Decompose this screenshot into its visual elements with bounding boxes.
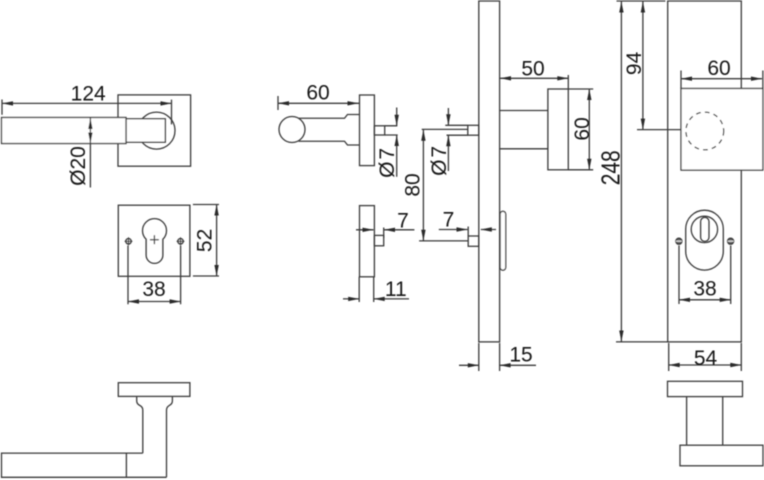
backplate side view: cylinder cover strip xyxy=(500,211,506,270)
arrow 15 left xyxy=(500,363,511,367)
svg-text:7: 7 xyxy=(397,209,409,232)
svg-text:52: 52 xyxy=(193,229,216,252)
arrow Ø7 knob down xyxy=(395,115,399,126)
dimension 124: extension lines xyxy=(2,100,172,125)
dimension Ø7 plate: extension lines xyxy=(445,125,468,135)
dimension 94: bottom extension xyxy=(637,129,681,131)
svg-text:80: 80 xyxy=(402,173,425,196)
arrow 15 right xyxy=(468,363,479,367)
arrow 60 square left xyxy=(681,77,692,81)
arrow 50 left xyxy=(500,76,511,80)
dimension 54: line xyxy=(669,364,742,366)
svg-text:Ø7: Ø7 xyxy=(428,144,451,176)
svg-text:248: 248 xyxy=(595,150,625,185)
backplate front view: square rose xyxy=(681,89,763,171)
dimension 38 right: extension lines xyxy=(679,246,731,305)
arrow 60 square right xyxy=(751,77,762,81)
dimension 124: line xyxy=(2,102,172,104)
lever elevation: rose edge xyxy=(118,383,190,397)
backplate front view: cylinder face xyxy=(691,216,717,242)
dimension Ø7 knob: arrow tails xyxy=(396,108,398,177)
dimension 11: lines xyxy=(343,298,409,300)
key rosette plan: cylinder cross xyxy=(150,235,159,244)
svg-text:38: 38 xyxy=(693,277,716,300)
arrow Ø20 down xyxy=(88,133,92,144)
arrow Ø7 knob up xyxy=(395,135,399,146)
dimension 52: extension lines xyxy=(193,205,219,277)
backplate front view: plate xyxy=(668,1,742,342)
dimension 50: extension line xyxy=(567,75,569,89)
arrow 248 down xyxy=(619,331,623,342)
dimension 7 plate: extension line xyxy=(467,227,469,237)
arrow 38L left xyxy=(128,299,139,303)
arrow 38R right xyxy=(720,298,731,302)
dimension 60 knob: extension line xyxy=(277,96,279,110)
key rosette plan: left screw xyxy=(125,237,133,245)
dimension 60 head: line xyxy=(588,89,590,170)
arrow 54 left xyxy=(669,363,680,367)
svg-text:38: 38 xyxy=(142,278,165,301)
dimension 60 square: line xyxy=(681,78,762,80)
backplate side view: hub neck xyxy=(500,111,548,149)
knob elevation: neck xyxy=(687,397,723,446)
lever handle plan view: rose circle xyxy=(138,112,175,149)
backplate side view: spindle stub xyxy=(468,125,479,135)
arrow 60 head up xyxy=(587,89,591,100)
knob side view: ball xyxy=(279,117,305,143)
backplate side view: cylinder stub xyxy=(468,236,479,246)
dimension 94: line xyxy=(642,2,644,130)
key rose side view: plate xyxy=(360,206,375,277)
backplate side view: plate xyxy=(479,1,500,342)
arrow 94 up xyxy=(641,2,645,13)
dimension 15: extension lines xyxy=(479,343,500,371)
arrow 7 rose right xyxy=(363,228,374,232)
knob elevation: rose edge xyxy=(668,381,743,396)
dimension 248: line xyxy=(620,2,622,342)
arrow 38L right xyxy=(170,299,181,303)
dimension 60 knob: line xyxy=(278,102,360,104)
svg-text:60: 60 xyxy=(707,57,730,80)
knob side view: stem and flange xyxy=(299,115,360,146)
svg-text:94: 94 xyxy=(623,51,646,75)
arrow 54 right xyxy=(730,363,741,367)
dimension 52: line xyxy=(216,205,218,277)
dimension 7 plate: lines xyxy=(439,229,496,231)
svg-text:60: 60 xyxy=(306,81,329,104)
dimension Ø20: line xyxy=(89,118,91,188)
backplate front view: right screw xyxy=(728,238,734,244)
svg-text:50: 50 xyxy=(521,58,544,81)
backplate front view: left screw xyxy=(676,238,682,244)
svg-text:54: 54 xyxy=(694,347,718,370)
dimension 50: line xyxy=(500,77,569,79)
svg-text:11: 11 xyxy=(385,278,407,301)
key rosette plan: right screw xyxy=(177,237,185,245)
dimension Ø7 plate: arrow tails xyxy=(447,108,449,171)
dimension 7 rose: extension line xyxy=(383,228,385,239)
arrow 80 up xyxy=(421,130,425,141)
knob side view: rose edge xyxy=(360,95,375,166)
key rose side view: stub xyxy=(374,235,383,245)
arrow Ø7 plate down xyxy=(446,114,450,125)
lever handle plan view: neck xyxy=(126,119,165,142)
arrow 80 down xyxy=(421,230,425,241)
arrow 60 head down xyxy=(587,159,591,170)
arrow 7 rose left xyxy=(384,228,395,232)
arrow 50 right xyxy=(557,76,568,80)
lever handle plan view: grip bar xyxy=(2,118,127,144)
arrow 7 plate right xyxy=(457,227,468,231)
dimension 7 rose: lines xyxy=(356,229,414,231)
backplate front view: top extension line 248/94 xyxy=(617,0,666,2)
svg-text:7: 7 xyxy=(443,209,455,232)
svg-text:60: 60 xyxy=(571,117,594,140)
knob elevation: head xyxy=(680,445,763,466)
arrow 38R left xyxy=(679,298,690,302)
lever handle plan view: square rosette xyxy=(118,95,191,166)
backplate front view: cylinder oval xyxy=(686,210,724,270)
arrow 124 left xyxy=(2,101,13,105)
key rosette plan: cylinder profile xyxy=(143,219,167,264)
dimension 80: extension lines xyxy=(419,129,468,241)
arrow 7 plate left xyxy=(481,227,492,231)
dimension 60 square: extension lines xyxy=(681,71,763,89)
dimension 38 left: line xyxy=(128,301,181,303)
arrow 52 down xyxy=(214,265,218,276)
dimension 60 head: extension lines xyxy=(568,89,593,170)
backplate front view: dashed spindle circle xyxy=(686,112,724,150)
svg-text:Ø20: Ø20 xyxy=(67,146,90,186)
arrow 11 right xyxy=(348,297,359,301)
arrow 60 knob left xyxy=(278,101,289,105)
key rosette plan: square xyxy=(118,205,190,276)
backplate side view: hub head xyxy=(548,89,568,170)
arrow 60 knob right xyxy=(348,101,359,105)
dimension 54: extension lines xyxy=(669,343,742,371)
dimension 38 right: line xyxy=(679,299,731,301)
backplate front view: key slot xyxy=(701,217,709,241)
dimension 15: lines xyxy=(459,364,536,366)
arrow 248 up xyxy=(619,2,623,13)
svg-text:124: 124 xyxy=(71,82,106,105)
arrow 52 up xyxy=(214,205,218,216)
dimension Ø7 knob: extension lines xyxy=(385,126,398,135)
arrow 94 down xyxy=(641,119,645,130)
dimension 80: line xyxy=(422,130,424,241)
dimension 11: extension lines xyxy=(359,277,374,302)
arrow 11 left xyxy=(374,297,385,301)
knob side view: spindle stub xyxy=(374,126,384,135)
arrow Ø7 plate up xyxy=(446,135,450,146)
arrow Ø20 up xyxy=(88,118,92,129)
dimension 248: bottom extension xyxy=(616,341,668,343)
lever elevation: neck xyxy=(137,396,173,477)
arrow 124 right xyxy=(161,101,172,105)
svg-text:Ø7: Ø7 xyxy=(376,146,399,178)
svg-text:15: 15 xyxy=(509,344,532,367)
lever elevation: grip bar xyxy=(2,453,167,477)
dimension 38 left: extension lines xyxy=(128,246,181,305)
